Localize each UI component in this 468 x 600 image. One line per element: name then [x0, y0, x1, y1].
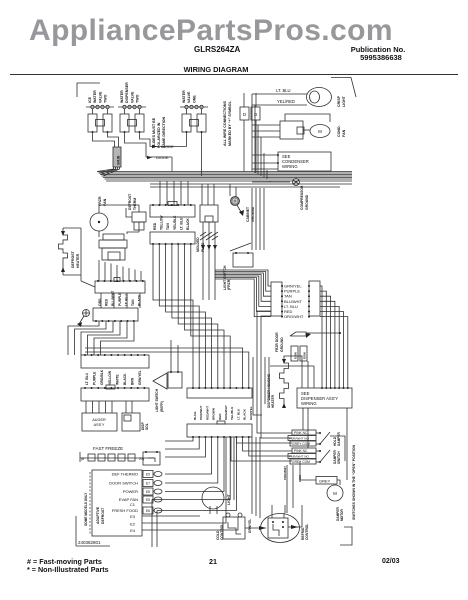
svg-text:E4: E4 [130, 528, 136, 533]
svg-text:YELLOW: YELLOW [108, 370, 112, 385]
svg-text:AppliancePartsPros.com: AppliancePartsPros.com [29, 14, 393, 47]
svg-text:POWER: POWER [123, 489, 138, 494]
svg-text:SLIDES MUST BE: SLIDES MUST BE [152, 117, 156, 148]
svg-text:RED: RED [105, 298, 109, 306]
svg-text:RED/WHT: RED/WHT [205, 405, 209, 420]
svg-text:YELLOW: YELLOW [160, 215, 164, 230]
svg-text:GREY: GREY [319, 479, 331, 484]
svg-text:TAN: TAN [131, 299, 135, 306]
svg-text:VALVE: VALVE [187, 91, 191, 103]
svg-text:CONTROL: CONTROL [220, 524, 224, 540]
svg-text:SWITCHES SHOWN IN THE “OPEN” P: SWITCHES SHOWN IN THE “OPEN” POSITION [352, 444, 356, 520]
svg-text:5995386638: 5995386638 [360, 53, 402, 62]
svg-text:ICE: ICE [88, 96, 92, 103]
svg-text:(REFR): (REFR) [160, 401, 164, 412]
svg-text:GREY COM: GREY COM [292, 442, 310, 446]
svg-text:DEFROST: DEFROST [101, 507, 105, 524]
svg-text:RED: RED [153, 222, 157, 230]
svg-text:ORG/WHT: ORG/WHT [284, 314, 304, 319]
svg-text:ORG/BLK: ORG/BLK [100, 369, 104, 385]
svg-text:PINK NC: PINK NC [294, 449, 308, 453]
svg-text:ASS'Y: ASS'Y [94, 423, 105, 427]
svg-text:E6: E6 [146, 509, 150, 513]
svg-text:PUR/WHT NO: PUR/WHT NO [289, 437, 309, 441]
svg-text:(8: (8 [81, 457, 84, 461]
svg-text:M: M [333, 491, 337, 496]
svg-text:GRN/YEL: GRN/YEL [138, 370, 142, 385]
svg-text:DIODE: DIODE [156, 155, 169, 160]
svg-text:DEFROST: DEFROST [128, 193, 132, 210]
svg-text:MOTOR: MOTOR [340, 508, 344, 521]
svg-text:WATER: WATER [120, 90, 124, 103]
svg-text:BROWN: BROWN [212, 407, 216, 420]
svg-text:DEF THERMO: DEF THERMO [112, 472, 138, 477]
svg-text:DEFROST: DEFROST [71, 250, 75, 268]
svg-text:ADAPTIVE: ADAPTIVE [96, 506, 100, 524]
svg-text:SOL: SOL [145, 423, 149, 430]
svg-text:BLU/WHT: BLU/WHT [111, 291, 115, 306]
svg-text:E3: E3 [130, 514, 136, 519]
svg-text:FRESH FOOD: FRESH FOOD [112, 508, 138, 513]
svg-text:PUR/WHT: PUR/WHT [283, 466, 287, 480]
svg-text:WATER: WATER [182, 90, 186, 103]
svg-text:ONE: ONE [192, 95, 196, 103]
svg-text:SOME MODELS ONLY: SOME MODELS ONLY [84, 492, 88, 526]
svg-text:HEATER: HEATER [76, 253, 80, 268]
svg-text:M: M [318, 129, 322, 134]
svg-text:VALVE: VALVE [98, 91, 102, 103]
svg-text:YEL/BLK: YEL/BLK [173, 215, 177, 230]
svg-text:LT. BLU: LT. BLU [179, 217, 183, 230]
svg-text:SMJB: SMJB [117, 155, 121, 165]
svg-text:DISPENSER: DISPENSER [125, 82, 129, 103]
svg-text:FRZR: FRZR [98, 196, 102, 206]
svg-text:E5: E5 [146, 498, 150, 502]
svg-text:LIGHT: LIGHT [227, 493, 231, 505]
svg-text:BLACK: BLACK [243, 408, 247, 420]
svg-text:YEL/BLK: YEL/BLK [230, 406, 234, 420]
svg-text:CONTROL: CONTROL [305, 524, 309, 540]
svg-text:SWITCH: SWITCH [337, 451, 341, 464]
svg-text:BLACK: BLACK [123, 373, 127, 385]
svg-text:E7: E7 [146, 482, 150, 486]
svg-text:C1: C1 [130, 502, 136, 507]
svg-text:FAST FREEZE: FAST FREEZE [93, 446, 123, 451]
svg-text:DIODE: DIODE [161, 144, 174, 149]
svg-text:TWO: TWO [104, 94, 108, 103]
svg-text:WIRING: WIRING [301, 401, 317, 406]
svg-text:02/03: 02/03 [382, 558, 400, 565]
svg-text:BLACK: BLACK [186, 218, 190, 230]
svg-text:21: 21 [209, 557, 217, 566]
svg-text:BLUE: BLUE [193, 412, 197, 420]
svg-text:THERM: THERM [133, 198, 137, 210]
svg-text:GROUND: GROUND [305, 194, 309, 210]
svg-text:WHITE: WHITE [115, 374, 119, 385]
svg-text:COMPRESSOR: COMPRESSOR [300, 185, 304, 210]
svg-text:DOOR SWITCH: DOOR SWITCH [109, 481, 138, 486]
svg-text:RED: RED [218, 413, 222, 420]
svg-text:ALL WIRE CONNECTIONS: ALL WIRE CONNECTIONS [223, 101, 227, 146]
svg-text:E5: E5 [146, 473, 150, 477]
svg-text:TWO: TWO [136, 94, 140, 103]
svg-text:VALVE: VALVE [130, 91, 134, 103]
svg-text:FAN: FAN [342, 129, 346, 137]
svg-text:LT. BLU: LT. BLU [124, 293, 128, 306]
svg-text:PUR/WHT NO: PUR/WHT NO [289, 455, 309, 459]
svg-text:LIGHT: LIGHT [342, 95, 346, 107]
svg-text:FRZR DOOR: FRZR DOOR [275, 332, 279, 352]
svg-text:EVAP FAN: EVAP FAN [119, 497, 138, 502]
svg-text:E8: E8 [146, 490, 150, 494]
svg-text:D: D [243, 112, 247, 117]
svg-text:WATER: WATER [93, 90, 97, 103]
svg-text:CRISP: CRISP [337, 95, 341, 107]
svg-text:WIRING DIAGRAM: WIRING DIAGRAM [184, 65, 249, 74]
svg-text:PUR/WHT: PUR/WHT [199, 405, 203, 420]
svg-text:GRN/YEL: GRN/YEL [249, 406, 253, 420]
svg-text:GRN: GRN [303, 352, 307, 359]
svg-text:YEL/RED: YEL/RED [277, 99, 295, 104]
svg-text:PURPLE: PURPLE [93, 371, 97, 385]
svg-text:DAMPER: DAMPER [337, 431, 341, 446]
svg-text:GROUND: GROUND [280, 337, 284, 352]
svg-text:(FRZR): (FRZR) [227, 279, 231, 290]
svg-text:240382801: 240382801 [78, 540, 101, 545]
svg-text:LT. BLU: LT. BLU [85, 372, 89, 385]
svg-text:GRN/YEL: GRN/YEL [248, 519, 252, 533]
svg-text:HEATER: HEATER [271, 394, 275, 408]
svg-text:GLRS264ZA: GLRS264ZA [194, 45, 240, 54]
svg-text:MARKED BY “+” SYMBOL: MARKED BY “+” SYMBOL [228, 100, 232, 146]
svg-text:GREY COM: GREY COM [292, 460, 310, 464]
svg-text:LT. BLU: LT. BLU [276, 88, 291, 93]
svg-text:PURPLE: PURPLE [118, 292, 122, 306]
svg-text:CABINET: CABINET [246, 206, 250, 222]
svg-text:AUGER: AUGER [92, 418, 106, 422]
svg-text:ORG/WHT: ORG/WHT [224, 405, 228, 420]
svg-text:COND.: COND. [337, 125, 341, 137]
svg-text:LIGHT SWITCH: LIGHT SWITCH [155, 388, 159, 412]
svg-text:LT. BLU: LT. BLU [236, 408, 240, 420]
svg-text:PINK NC: PINK NC [294, 431, 308, 435]
svg-text:E2: E2 [130, 522, 136, 527]
svg-text:TAN: TAN [166, 223, 170, 230]
svg-text:* = Non-Illustrated Parts: * = Non-Illustrated Parts [27, 565, 109, 574]
svg-text:MOLDED: MOLDED [196, 237, 200, 252]
svg-text:WIRING: WIRING [282, 164, 298, 169]
svg-text:BRN: BRN [131, 377, 135, 385]
